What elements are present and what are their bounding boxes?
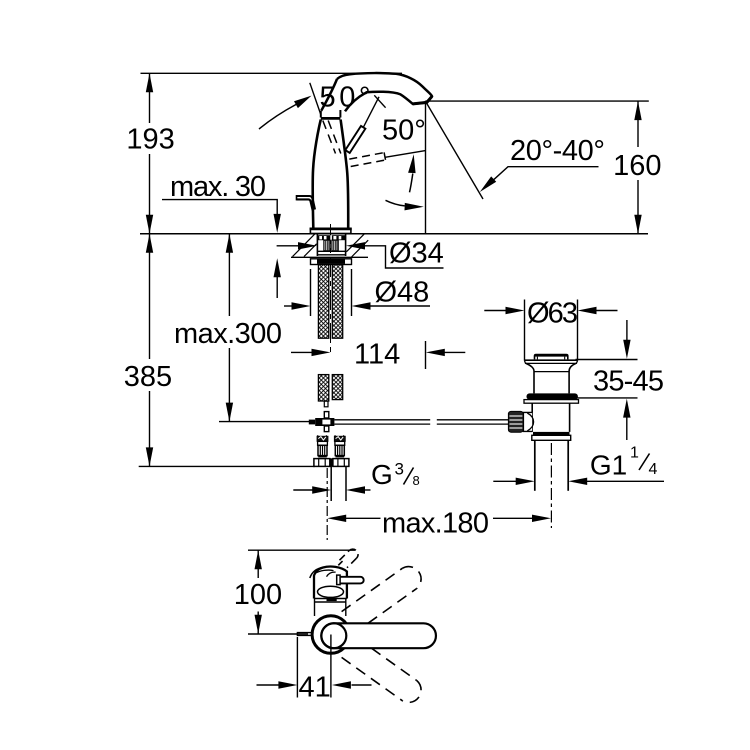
internal cartridge dashed lines bbox=[323, 121, 341, 154]
threaded shank lower left column bbox=[318, 375, 328, 407]
svg-text:G: G bbox=[371, 459, 393, 490]
threaded shank right column bbox=[332, 265, 342, 339]
G3/8 tube below right nut bbox=[331, 466, 346, 501]
pop-up rod clamp bbox=[315, 418, 334, 432]
svg-text:max.300: max.300 bbox=[174, 318, 282, 350]
dimension 35-45 bbox=[576, 320, 665, 440]
svg-text:max. 30: max. 30 bbox=[170, 171, 266, 203]
faucet base escutcheon bbox=[310, 228, 352, 233]
dimension max. 30 bbox=[162, 171, 281, 298]
svg-text:4: 4 bbox=[649, 461, 658, 478]
mounting sleeve through counter bbox=[317, 234, 345, 256]
threaded shank lower right column bbox=[332, 375, 342, 400]
lever horizontal dashed bbox=[349, 152, 385, 166]
flexible hose end cap right bbox=[334, 435, 345, 441]
dimension 385 bbox=[124, 234, 172, 467]
locknut bbox=[532, 432, 571, 440]
hose nut right bbox=[333, 459, 349, 467]
dimension 160 bbox=[426, 101, 662, 234]
label 20-40 deg with leader bbox=[477, 135, 605, 195]
pop-up rod ferrule left bbox=[309, 420, 315, 425]
hose collar left bbox=[318, 441, 328, 445]
plan view spout tip dashed (raised) bbox=[338, 549, 358, 568]
lever tilted 50 deg bbox=[345, 95, 385, 153]
pop-up waste top flange bbox=[524, 360, 577, 393]
dimension max.180 bbox=[327, 508, 551, 540]
faucet body outline bbox=[313, 120, 349, 228]
faucet spout bbox=[321, 73, 432, 111]
pop-up waste O-ring seal bbox=[527, 393, 578, 399]
washer below counter (Ø48) bbox=[311, 259, 352, 265]
dimension 193 bbox=[126, 73, 174, 234]
plan view side lever (solid, pointing right) bbox=[337, 575, 364, 585]
faucet neck top bbox=[321, 110, 341, 118]
fixing kit nut band bbox=[317, 235, 346, 240]
counter hatching bbox=[293, 234, 369, 257]
lever reference thin line to vertical bbox=[385, 151, 426, 158]
plan view lever dashed down-right bbox=[342, 648, 421, 702]
extension line bottom (hose nuts level) bbox=[139, 465, 315, 467]
threaded studs in sleeve bbox=[324, 240, 338, 251]
angle label 50 deg (handle tilt) bbox=[320, 81, 371, 113]
dimension 41 bbox=[257, 635, 372, 704]
dimension Ø34 bbox=[277, 238, 444, 270]
pop-up rod vertical piece bbox=[324, 412, 329, 418]
pop-up waste washer bbox=[524, 400, 579, 404]
curved arrow to handle tilt line bbox=[259, 96, 312, 129]
plan view lever dashed up-right bbox=[342, 567, 421, 624]
hose nut gap bbox=[330, 458, 334, 466]
svg-text:193: 193 bbox=[126, 124, 174, 156]
plan view body joint lines bbox=[314, 599, 347, 617]
svg-text:41: 41 bbox=[298, 672, 330, 704]
dimension 100 (plan view) bbox=[234, 550, 355, 634]
dimension G3/8 bbox=[293, 459, 419, 494]
counter bottom line bbox=[291, 256, 368, 258]
plan view base circle bbox=[312, 616, 350, 654]
curved arrow up (jet adjust) bbox=[408, 154, 416, 192]
faucet center line bbox=[330, 224, 332, 352]
dimension 114 bbox=[291, 339, 465, 371]
dimension G1 1/4 bbox=[493, 445, 664, 486]
angle label 50 deg (lever arc) bbox=[382, 114, 426, 146]
pop-up waste plug head bbox=[535, 355, 568, 360]
svg-text:100: 100 bbox=[234, 579, 282, 611]
svg-text:Ø34: Ø34 bbox=[389, 238, 444, 270]
svg-text:Ø48: Ø48 bbox=[375, 277, 430, 309]
extension line top of faucet bbox=[141, 72, 403, 74]
dimension Ø48 bbox=[284, 269, 430, 316]
hose center line below left nut bbox=[326, 468, 328, 540]
svg-text:3: 3 bbox=[395, 460, 404, 479]
plan view lever capsule (solid) bbox=[321, 623, 436, 648]
dimension max.300 bbox=[174, 234, 309, 422]
plan view spout body bbox=[310, 567, 347, 599]
hose nut left bbox=[314, 459, 330, 467]
svg-text:160: 160 bbox=[613, 150, 661, 182]
svg-text:max.180: max.180 bbox=[382, 508, 489, 540]
rod knuckle boss bbox=[523, 412, 533, 431]
plan view dome ellipse bbox=[318, 586, 344, 600]
svg-text:1: 1 bbox=[630, 445, 639, 462]
svg-text:20°-40°: 20°-40° bbox=[510, 135, 605, 167]
svg-text:35-45: 35-45 bbox=[593, 366, 664, 398]
spout outlet vertical reference line bbox=[425, 101, 427, 234]
knurled adjusting knob bbox=[508, 411, 523, 432]
hose collar right bbox=[335, 441, 345, 445]
hose ribbed body left bbox=[318, 445, 327, 456]
plan view pop-up rod stub bbox=[297, 633, 312, 636]
hose ribbed body right bbox=[335, 445, 344, 456]
counter top line bbox=[140, 233, 648, 235]
dimension Ø63 bbox=[484, 298, 617, 361]
svg-text:114: 114 bbox=[354, 339, 400, 371]
tailpipe bbox=[535, 440, 568, 491]
svg-text:8: 8 bbox=[413, 473, 420, 488]
curved arrow right (lever swivel) bbox=[386, 200, 424, 210]
handle hook left bbox=[297, 195, 316, 211]
svg-text:385: 385 bbox=[124, 361, 172, 393]
threaded shank left column bbox=[318, 265, 328, 339]
drain center line bbox=[550, 443, 552, 528]
svg-text:50°: 50° bbox=[382, 114, 426, 146]
pop-up waste body bbox=[532, 403, 569, 432]
handle tilt reference line bbox=[310, 83, 321, 114]
svg-text:G1: G1 bbox=[590, 450, 627, 481]
horizontal pop-up rod bbox=[334, 420, 508, 424]
water jet angle line bbox=[427, 103, 484, 199]
flexible hose end cap left bbox=[317, 435, 328, 441]
svg-text:Ø63: Ø63 bbox=[527, 298, 578, 330]
